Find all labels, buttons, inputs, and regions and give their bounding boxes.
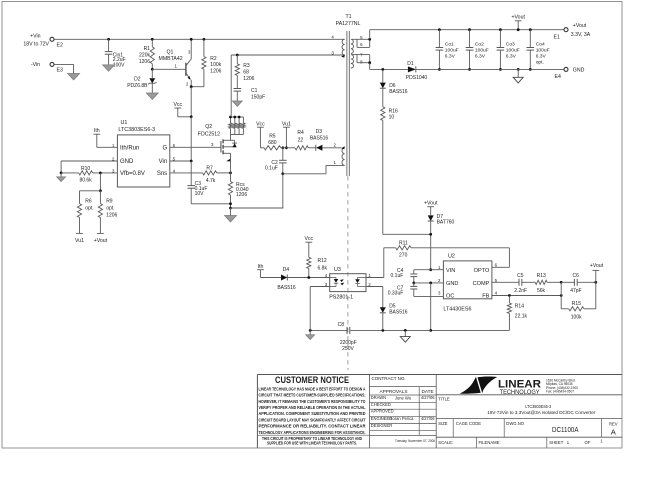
svg-text:Fax: (408)434-0507: Fax: (408)434-0507 <box>546 389 574 393</box>
svg-text:+Vout: +Vout <box>94 238 108 244</box>
svg-text:+Vout: +Vout <box>424 201 438 207</box>
svg-text:Ith: Ith <box>258 264 264 270</box>
svg-text:Vu1: Vu1 <box>282 121 291 127</box>
capacitor C6 <box>561 273 596 294</box>
svg-text:+Vout: +Vout <box>590 263 604 269</box>
svg-text:LINEAR TECHNOLOGY HAS MADE A B: LINEAR TECHNOLOGY HAS MADE A BEST EFFORT… <box>259 386 366 391</box>
resistor bank (Q2 drain) <box>229 116 245 137</box>
wire comp node tie <box>560 282 562 295</box>
svg-text:0.33uF: 0.33uF <box>388 291 404 297</box>
svg-text:BAT760: BAT760 <box>437 220 455 226</box>
Linear Technology logo <box>460 376 579 395</box>
svg-text:FB: FB <box>482 294 489 300</box>
node bottom rail GND line <box>429 329 432 332</box>
node rail Co1 bot <box>438 68 441 71</box>
svg-text:R5: R5 <box>269 134 276 140</box>
wire +Vin rail <box>54 38 345 40</box>
node rail Co4 top <box>529 28 532 31</box>
ground (Rcs) <box>225 208 237 222</box>
wire Vin pin <box>170 160 191 162</box>
optocoupler U3 PS2801-1 <box>325 267 372 300</box>
U3 phototransistor <box>355 278 366 287</box>
svg-text:R6: R6 <box>85 199 92 205</box>
svg-text:22.1k: 22.1k <box>515 313 528 319</box>
svg-text:DATE: DATE <box>422 389 434 394</box>
node D7-R16 <box>429 233 432 236</box>
svg-text:Co2: Co2 <box>475 41 484 47</box>
wire sec1 pins 5-6 <box>352 39 370 47</box>
svg-text:1206: 1206 <box>243 76 254 82</box>
node VIN-C4 <box>429 268 432 271</box>
svg-text:6.3V: 6.3V <box>475 53 486 59</box>
resistor R13 <box>535 273 561 294</box>
node rail Co4 bot <box>529 68 532 71</box>
node FB-R14 <box>508 294 511 297</box>
node Vcc-C2 <box>281 146 284 149</box>
svg-text:150pF: 150pF <box>251 94 265 100</box>
node C5R13-C6 <box>560 281 563 284</box>
ground (C1) <box>232 101 242 106</box>
svg-text:OPTO: OPTO <box>474 268 490 274</box>
svg-text:0.1uF: 0.1uF <box>265 165 278 171</box>
svg-text:680: 680 <box>268 140 277 146</box>
net Ith (U1 pin1) <box>93 128 117 147</box>
node Rcs gnd b <box>229 207 232 210</box>
title block <box>257 375 622 449</box>
svg-text:June Wu: June Wu <box>395 395 411 400</box>
transistor Q2 FDC2512 <box>198 124 237 173</box>
wire G pin to Q2 gate <box>170 142 221 148</box>
svg-text:D2: D2 <box>134 76 141 82</box>
ground (secondary) <box>400 330 410 342</box>
svg-text:SCALE:: SCALE: <box>438 440 453 445</box>
svg-text:R2: R2 <box>210 56 217 62</box>
svg-text:APPROVED: APPROVED <box>371 409 394 414</box>
transformer T1 PA1277NL labels <box>336 14 361 27</box>
svg-text:LTC3803ES6-3: LTC3803ES6-3 <box>118 127 155 133</box>
svg-text:Co1: Co1 <box>445 41 454 47</box>
svg-text:CAGE CODE: CAGE CODE <box>456 421 481 426</box>
svg-text:SIZE: SIZE <box>438 421 448 426</box>
node Vin-C3 <box>190 160 193 163</box>
svg-text:FDC2512: FDC2512 <box>198 131 220 137</box>
svg-text:Vcc: Vcc <box>173 102 182 108</box>
svg-text:BAS516: BAS516 <box>389 309 408 315</box>
svg-text:D1: D1 <box>407 61 414 67</box>
resistor R10 <box>61 166 117 184</box>
node Vin-R1 <box>151 38 154 41</box>
svg-text:6.3V: 6.3V <box>445 53 456 59</box>
capacitor C5 <box>492 273 535 294</box>
svg-text:250V: 250V <box>342 346 354 352</box>
wire U3 pin2 to D5 <box>366 287 383 308</box>
svg-text:GND: GND <box>446 281 458 287</box>
resistor R15 <box>561 282 596 320</box>
zener diode D2 <box>127 69 156 93</box>
svg-text:DWG.NO: DWG.NO <box>506 421 524 426</box>
ground (Cin1) <box>103 65 115 71</box>
node rail +Vout stub <box>517 28 520 31</box>
svg-text:Vcc: Vcc <box>256 121 265 127</box>
node Vu1 junction <box>285 146 288 149</box>
svg-text:VIN: VIN <box>446 268 455 274</box>
svg-text:E4: E4 <box>555 74 561 80</box>
node sec1 out <box>368 38 371 41</box>
diode D5 <box>380 304 408 331</box>
svg-text:Vu1: Vu1 <box>75 238 84 244</box>
svg-text:APPROVALS: APPROVALS <box>379 389 407 394</box>
svg-text:0.1uF: 0.1uF <box>391 273 404 279</box>
svg-text:R13: R13 <box>537 273 546 279</box>
node sec2 out <box>368 61 371 64</box>
svg-text:4.7k: 4.7k <box>206 178 216 184</box>
node rail Co3 top <box>499 28 502 31</box>
svg-text:R15: R15 <box>572 301 581 307</box>
terminal E2 +Vin <box>23 34 63 49</box>
wire R11 to opto pin1 <box>383 248 385 278</box>
resistor R16 <box>381 88 398 120</box>
svg-text:22: 22 <box>298 138 304 144</box>
resistor R12 <box>307 257 328 277</box>
wire E3 to ground <box>54 64 74 73</box>
node D4-R12 <box>307 276 310 279</box>
resistor R1 <box>139 39 155 69</box>
resistor R9 <box>98 191 117 234</box>
svg-text:-Vin: -Vin <box>31 62 40 68</box>
svg-text:10V: 10V <box>195 191 205 197</box>
node rail Co2 bot <box>468 68 471 71</box>
svg-text:CIRCUIT BOARD LAYOUT MAY SIGNI: CIRCUIT BOARD LAYOUT MAY SIGNIFICANTLY A… <box>259 417 366 422</box>
svg-text:1206: 1206 <box>210 69 221 75</box>
svg-text:E1: E1 <box>554 34 560 40</box>
node Sns <box>229 172 232 175</box>
node bottom rail gnd stub <box>404 329 407 332</box>
wire FB pin <box>492 295 561 297</box>
node C2-aux <box>281 172 284 175</box>
svg-text:C8: C8 <box>338 322 345 328</box>
svg-text:3.3V, 3A: 3.3V, 3A <box>571 32 591 38</box>
svg-text:PDZ6.8B: PDZ6.8B <box>127 83 148 89</box>
node Rcs gnd a <box>229 202 232 205</box>
node rail gnd stub <box>517 68 520 71</box>
ground (opto side) <box>306 330 315 339</box>
ground (U1) <box>57 173 66 182</box>
transistor Q1 <box>159 39 192 86</box>
node FB-R15 <box>560 294 563 297</box>
svg-text:R4: R4 <box>297 130 304 136</box>
wire opto pin6 riser <box>492 248 510 267</box>
svg-text:+Vout: +Vout <box>573 23 587 29</box>
wire U3 pin3 to gnd <box>310 287 330 331</box>
svg-text:FILENAME:: FILENAME: <box>479 440 501 445</box>
svg-text:GND: GND <box>120 159 134 165</box>
svg-text:E2: E2 <box>57 43 63 49</box>
svg-text:LT4430ES6: LT4430ES6 <box>443 307 471 313</box>
net +Vout (C6) <box>590 263 604 282</box>
op-amp U2 LT4430ES6 <box>438 254 498 313</box>
svg-text:6.8k: 6.8k <box>318 266 328 272</box>
svg-text:BAS516: BAS516 <box>277 285 296 291</box>
node U1 gnd <box>60 172 63 175</box>
resistor R3 <box>235 55 254 89</box>
svg-text:REV: REV <box>609 422 618 427</box>
resistor R2 <box>191 39 221 86</box>
wire T1 pin3 to Q2 drain <box>231 55 344 117</box>
svg-text:D3: D3 <box>316 129 323 135</box>
wire U1 GND pin <box>61 161 117 173</box>
svg-text:VERIFY PROPER AND RELIABLE OPE: VERIFY PROPER AND RELIABLE OPERATION IN … <box>259 405 366 410</box>
node Q1-base <box>151 68 154 71</box>
svg-text:OF: OF <box>584 440 590 445</box>
svg-text:DRAWN: DRAWN <box>371 395 386 400</box>
svg-text:Goran Perica: Goran Perica <box>389 416 414 421</box>
svg-text:100k: 100k <box>571 315 582 321</box>
svg-text:CHECKED: CHECKED <box>371 402 391 407</box>
svg-text:270: 270 <box>399 252 408 258</box>
svg-text:Ith: Ith <box>94 128 100 134</box>
svg-text:+Vout: +Vout <box>511 15 525 21</box>
svg-text:Sns: Sns <box>157 171 167 177</box>
svg-text:CIRCUIT THAT MEETS CUSTOMER-SU: CIRCUIT THAT MEETS CUSTOMER-SUPPLIED SPE… <box>259 393 366 398</box>
net Vu1 (aux) <box>282 121 291 147</box>
node Vin-Cin1 <box>107 38 110 41</box>
svg-text:opt.: opt. <box>85 206 93 212</box>
resistor R5 <box>264 134 281 150</box>
svg-text:D4: D4 <box>283 267 290 273</box>
svg-text:100V: 100V <box>113 62 125 68</box>
svg-text:100uF: 100uF <box>536 47 550 53</box>
wire D2 to Q1 base <box>152 64 186 70</box>
svg-text:TITLE: TITLE <box>438 396 450 401</box>
capacitor C1 <box>234 88 266 101</box>
node rail Co2 top <box>468 28 471 31</box>
net Vcc (Q1 emitter) <box>173 102 191 117</box>
net +Vout (rail) <box>511 15 525 30</box>
diode D4 <box>277 267 329 291</box>
capacitor C7 <box>388 283 444 297</box>
svg-text:1206: 1206 <box>139 59 150 65</box>
svg-text:4/27/06: 4/27/06 <box>421 416 435 421</box>
wire Vfb to divider <box>99 173 101 191</box>
svg-text:Vin: Vin <box>159 159 168 165</box>
wire VIN pin <box>431 269 444 271</box>
svg-text:HOWEVER, IT REMAINS THE CUSTOM: HOWEVER, IT REMAINS THE CUSTOMER'S RESPO… <box>259 399 367 404</box>
capacitor C2 <box>265 148 287 174</box>
svg-text:APPLICATION. COMPONENT SUBSTI: APPLICATION. COMPONENT SUBSTITUTION AND … <box>259 411 366 416</box>
svg-text:R12: R12 <box>318 258 327 264</box>
svg-text:MMBTA42: MMBTA42 <box>159 56 183 62</box>
wire sec1 to +Vout rail <box>370 30 564 40</box>
isolation barrier (dashed) <box>347 176 349 370</box>
capacitor C8 <box>310 322 357 352</box>
svg-text:+Vin: +Vin <box>30 34 41 40</box>
svg-text:TECHNOLOGY APPLICATIONS ENGINE: TECHNOLOGY APPLICATIONS ENGINEERING FOR … <box>259 430 366 435</box>
svg-text:10: 10 <box>389 114 395 120</box>
wire primary ground rail right <box>231 207 284 209</box>
diode D3 <box>310 129 342 151</box>
svg-text:C1: C1 <box>251 88 258 94</box>
node C4-GND <box>412 282 415 285</box>
ground (D2) <box>146 93 158 99</box>
svg-text:COMP: COMP <box>473 281 490 287</box>
node drain-R3 <box>236 54 239 57</box>
net +Vout (D7) <box>424 201 438 216</box>
wire C2 to primary gnd <box>282 174 284 208</box>
terminal E1 +Vout <box>554 23 591 40</box>
svg-text:SUPPLIED FOR USE WITH LINEAR T: SUPPLIED FOR USE WITH LINEAR TECHNOLOGY … <box>267 440 357 445</box>
net Ith (opto) <box>257 264 281 278</box>
ground (output) <box>513 69 523 83</box>
T1 core <box>347 31 349 176</box>
svg-text:R1: R1 <box>144 46 151 52</box>
svg-text:R10: R10 <box>81 166 90 172</box>
svg-text:TECHNOLOGY: TECHNOLOGY <box>500 389 540 396</box>
svg-text:SHEET: SHEET <box>549 440 563 445</box>
svg-text:Vcc: Vcc <box>304 236 313 242</box>
svg-text:U1: U1 <box>121 120 128 126</box>
wire R16 down <box>383 120 431 234</box>
wire Q1e to Vcc node <box>190 87 192 117</box>
svg-text:PDS1040: PDS1040 <box>406 75 428 81</box>
wire bottom rail <box>350 329 430 331</box>
node GND junction <box>429 282 432 285</box>
T1 aux winding <box>334 142 345 165</box>
svg-text:CUSTOMER NOTICE: CUSTOMER NOTICE <box>275 375 349 385</box>
svg-text:56k: 56k <box>537 288 546 294</box>
svg-text:R11: R11 <box>399 240 408 246</box>
node Vin-Q1c <box>190 38 193 41</box>
terminal E3 -Vin <box>31 62 63 74</box>
wire GND to bottom rail <box>430 283 432 331</box>
node divider split <box>99 189 102 192</box>
svg-text:E3: E3 <box>57 68 63 74</box>
resistor R11 <box>384 240 510 258</box>
wire R5 to R4 <box>281 147 295 149</box>
resistor R4 <box>295 130 316 150</box>
svg-text:2.2nF: 2.2nF <box>514 288 527 294</box>
svg-text:100uF: 100uF <box>475 47 489 53</box>
svg-text:BAS516: BAS516 <box>310 136 329 142</box>
svg-text:220k: 220k <box>139 53 150 59</box>
svg-text:Vfb=0.8V: Vfb=0.8V <box>120 171 145 177</box>
svg-text:Q2: Q2 <box>205 124 212 130</box>
svg-text:100uF: 100uF <box>506 47 520 53</box>
T1 primary winding <box>331 35 344 58</box>
svg-text:opt.: opt. <box>536 59 544 65</box>
svg-text:DESIGNER: DESIGNER <box>371 423 392 428</box>
U3 LED <box>330 278 345 287</box>
diode D6 <box>380 69 408 94</box>
svg-text:T1: T1 <box>345 14 351 20</box>
svg-text:BAS516: BAS516 <box>389 89 408 95</box>
ground (E3) <box>68 74 80 80</box>
op-amp U1 LTC3803ES6-3 <box>112 120 176 187</box>
svg-text:R7: R7 <box>206 165 213 171</box>
node rail Co3 bot <box>499 68 502 71</box>
svg-text:Q1: Q1 <box>167 50 174 56</box>
svg-text:C5: C5 <box>517 273 524 279</box>
svg-text:C6: C6 <box>572 273 579 279</box>
svg-text:opt.: opt. <box>106 206 114 212</box>
svg-text:18V-72Vin to 3.3Vout@3A Isolat: 18V-72Vin to 3.3Vout@3A Isolated DC/DC C… <box>487 410 595 416</box>
svg-text:CONTRACT NO.: CONTRACT NO. <box>372 376 406 381</box>
node C6-Vout <box>594 281 597 284</box>
node rail Co1 top <box>438 28 441 31</box>
wire Vcc to Vin pin <box>190 117 192 161</box>
svg-text:G: G <box>163 146 168 152</box>
node Q1-emitter <box>190 85 193 88</box>
svg-text:U2: U2 <box>448 254 455 260</box>
diode D7 <box>428 214 455 270</box>
svg-text:100k: 100k <box>210 62 221 68</box>
svg-text:Tuesday, November 07, 2006: Tuesday, November 07, 2006 <box>395 439 435 443</box>
net +Vout (R9) <box>94 233 108 243</box>
T1 secondary winding 1 <box>351 35 363 54</box>
net Vu1 (R6) <box>75 233 84 243</box>
svg-text:U3: U3 <box>334 267 341 273</box>
resistor R7 <box>170 165 231 184</box>
svg-text:LTC3803ES6-3: LTC3803ES6-3 <box>525 404 551 410</box>
svg-text:1206: 1206 <box>236 192 247 198</box>
diode D1 <box>406 61 564 81</box>
terminal E4 GND <box>555 67 585 80</box>
svg-text:80.6k: 80.6k <box>79 177 92 183</box>
wire primary ground rail left <box>191 203 230 205</box>
svg-text:R3: R3 <box>243 63 250 69</box>
node gnd-rail D6 <box>381 68 384 71</box>
svg-text:R14: R14 <box>515 303 524 309</box>
wire U3 pin1 <box>366 277 384 279</box>
net Vcc (R12) <box>304 236 313 257</box>
svg-text:OC: OC <box>446 294 454 300</box>
wire sec2 pins 7-8 <box>352 55 370 63</box>
capacitor C4 <box>391 268 431 283</box>
node Vfb <box>99 172 102 175</box>
capacitor Co3 <box>497 30 520 70</box>
wire GND pin <box>414 282 444 284</box>
T1 secondary winding 2 <box>351 52 363 68</box>
svg-text:Ith/Run: Ith/Run <box>120 146 139 152</box>
resistor R6 <box>77 191 100 234</box>
svg-text:Co4: Co4 <box>536 41 545 47</box>
svg-text:PA1277NL: PA1277NL <box>336 21 361 27</box>
capacitor C3 <box>187 161 207 204</box>
svg-text:R9: R9 <box>106 199 113 205</box>
svg-text:68: 68 <box>243 69 249 75</box>
capacitor Cin1 <box>105 39 126 68</box>
node Vcc junction <box>190 115 193 118</box>
svg-text:18V to 72V: 18V to 72V <box>23 42 49 48</box>
net Vcc (aux) <box>256 121 265 147</box>
svg-text:Co3: Co3 <box>506 41 515 47</box>
resistor Rcs <box>228 173 248 208</box>
node rail left end <box>309 329 312 332</box>
svg-text:PERFORMANCE OR RELIABILITY.: PERFORMANCE OR RELIABILITY. CONTACT LINE… <box>259 424 367 429</box>
capacitor Co4 <box>527 30 550 70</box>
svg-text:GND: GND <box>573 67 585 73</box>
node Vin-R2 <box>203 38 206 41</box>
svg-text:4/27/06: 4/27/06 <box>421 395 435 400</box>
svg-text:47pF: 47pF <box>570 288 581 294</box>
svg-text:DC1100A: DC1100A <box>552 425 579 434</box>
resistor R14 <box>431 296 528 331</box>
node bottom rail D5 <box>381 329 384 332</box>
svg-text:100uF: 100uF <box>445 47 459 53</box>
svg-text:6.3V: 6.3V <box>536 53 547 59</box>
capacitor Co2 <box>466 30 489 70</box>
wire sec2 to gnd rail <box>370 63 408 70</box>
svg-text:PS2801-1: PS2801-1 <box>329 295 353 301</box>
